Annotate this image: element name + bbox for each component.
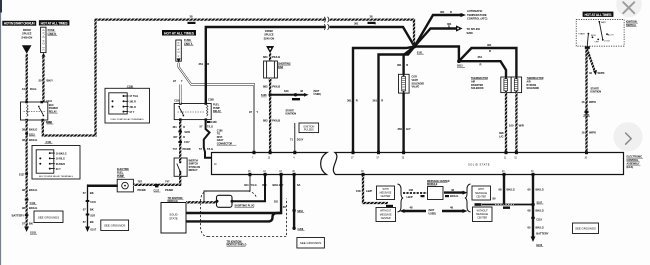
- band bottom pin numbers: [248, 171, 534, 173]
- svg-text:SOLENOID: SOLENOID: [471, 87, 484, 90]
- svg-text:461: 461: [172, 125, 177, 129]
- wire 48 arrow right top: [444, 191, 468, 195]
- wire pin20 to C208: [293, 176, 295, 228]
- svg-text:361 R: 361 R: [130, 106, 137, 109]
- svg-text:60: 60: [528, 187, 531, 191]
- svg-text:FROM: FROM: [23, 28, 31, 32]
- svg-text:398: 398: [499, 131, 504, 135]
- svg-text:PK/LB: PK/LB: [272, 84, 280, 88]
- wire 16 W/PK to band: [585, 49, 587, 152]
- svg-text:32: 32: [589, 71, 592, 75]
- svg-text:C186: C186: [211, 121, 217, 124]
- svg-text:L/G: L/G: [499, 135, 503, 139]
- label 108 LB/P: [356, 189, 372, 193]
- svg-text:359: 359: [262, 183, 267, 187]
- label 787 PK/BK: [138, 180, 146, 192]
- label 361 R byp: [487, 43, 492, 53]
- label TFI ignition module shield: [227, 240, 247, 246]
- svg-text:W/R: W/R: [519, 123, 524, 127]
- svg-text:CENTER: CENTER: [476, 195, 486, 198]
- label 38 C184 right: [368, 15, 376, 25]
- svg-text:USED): USED): [314, 93, 322, 96]
- connector S206: [178, 131, 190, 135]
- label 361 R riser: [199, 62, 210, 66]
- splice S101 junction: [413, 45, 424, 55]
- wire U loop to module: [186, 213, 281, 221]
- svg-text:HOT AT ALL TIMES: HOT AT ALL TIMES: [41, 21, 69, 25]
- svg-text:WITH: WITH: [382, 188, 388, 191]
- label 57 BK 2: [83, 208, 94, 212]
- svg-text:T/LG: T/LG: [207, 147, 213, 151]
- note NOT USED bottom: [429, 209, 437, 215]
- fuel pump relay K1: [174, 102, 211, 120]
- svg-text:R: R: [448, 25, 450, 29]
- wire pump ground 57 BK: [88, 184, 118, 187]
- thermactor air diverter solenoid L2: [501, 77, 511, 93]
- svg-text:98: 98: [22, 188, 25, 192]
- wire inertia to relay 747 PK/BK: [179, 120, 181, 158]
- connector C116: [154, 184, 161, 192]
- shield dashed boundary: [201, 191, 287, 237]
- svg-text:S206: S206: [184, 131, 190, 134]
- ground G103 right: [531, 237, 544, 248]
- svg-text:108: 108: [409, 188, 414, 192]
- svg-text:80: 80: [493, 196, 496, 200]
- wire junction to riser 353: [353, 47, 415, 152]
- svg-text:361: 361: [199, 62, 204, 66]
- svg-text:OFF: OFF: [595, 41, 600, 43]
- svg-text:97 Y: 97 Y: [130, 111, 135, 114]
- label 361 R riser1: [347, 99, 358, 103]
- svg-text:883: 883: [263, 119, 268, 123]
- band bottom pin pads: [248, 173, 534, 176]
- connector C108: [292, 98, 300, 100]
- label 16 R/LG: [22, 87, 36, 91]
- label EEC POWER RELAY: [49, 104, 58, 113]
- connector C118: [531, 217, 542, 222]
- close button: [616, 0, 642, 17]
- label HOT IN START OR RUN: [2, 21, 36, 26]
- wire junction to EGR: [404, 47, 415, 75]
- svg-text:BK/LG/Y: BK/LG/Y: [273, 183, 284, 187]
- svg-text:BK/LG: BK/LG: [29, 206, 37, 210]
- svg-text:48: 48: [300, 89, 303, 93]
- wire 883 PK/LB lower: [269, 78, 271, 152]
- ECA band right section: [333, 153, 623, 175]
- svg-text:360: 360: [398, 127, 403, 131]
- label 747 PK/BK upper: [173, 147, 191, 151]
- splice S127: [19, 172, 28, 176]
- label 60 BK/LG: [528, 187, 544, 191]
- wire to ATC arrow: [415, 13, 467, 47]
- svg-text:R: R: [406, 63, 408, 67]
- connector C117: [178, 141, 190, 144]
- svg-text:IGNITION: IGNITION: [286, 113, 297, 116]
- svg-text:O: O: [183, 135, 185, 139]
- svg-text:TEMPERATURE: TEMPERATURE: [467, 13, 487, 17]
- label EGR vent solenoid: [412, 76, 425, 89]
- svg-text:C188: C188: [208, 99, 214, 102]
- svg-text:R: R: [450, 10, 452, 14]
- wire S613 to bypass solenoid: [459, 48, 517, 77]
- svg-text:PK/BK: PK/BK: [183, 147, 191, 151]
- note AUTOMATIC TEMPERATURE CONTROL: [467, 9, 487, 21]
- svg-text:SEE GROUNDS: SEE GROUNDS: [38, 215, 59, 219]
- inertia switch S1: [174, 158, 187, 176]
- message center module title: [427, 180, 450, 186]
- svg-text:SOLID STATE: SOLID STATE: [468, 163, 490, 167]
- label 97 Y pin7: [249, 110, 258, 114]
- svg-text:HOT IN START OR RUN: HOT IN START OR RUN: [4, 22, 36, 26]
- svg-text:WITHOUT: WITHOUT: [380, 210, 392, 213]
- svg-text:57: 57: [22, 222, 25, 226]
- wire to splice S208: [415, 25, 463, 46]
- svg-text:LOCK: LOCK: [604, 40, 610, 42]
- svg-text:20: 20: [39, 79, 42, 83]
- label 57 T/LG 2: [199, 147, 213, 151]
- svg-text:361 R: 361 R: [130, 101, 137, 104]
- svg-text:PK/LB: PK/LB: [272, 55, 280, 59]
- wire junction to S613: [415, 47, 459, 62]
- svg-text:SEE GROUNDS: SEE GROUNDS: [575, 227, 596, 231]
- label SHORTING BAR: [278, 62, 291, 68]
- svg-text:MESSAGE: MESSAGE: [380, 213, 392, 216]
- svg-text:USED): USED): [429, 212, 437, 215]
- label 640 R: [284, 89, 303, 93]
- svg-text:O: O: [183, 125, 185, 129]
- label 361 R riser2: [373, 99, 384, 103]
- svg-text:BATT: BATT: [601, 21, 607, 24]
- wire 97 Y pair: [179, 63, 254, 152]
- without message center box R: [473, 207, 493, 222]
- svg-text:97 T/LG: 97 T/LG: [130, 95, 139, 98]
- svg-text:38: 38: [22, 127, 25, 131]
- wire 71 DG/Y: [294, 123, 296, 152]
- connector C113: [25, 199, 37, 206]
- svg-text:SPLICE: SPLICE: [264, 33, 274, 37]
- connector C115 pump: [86, 200, 97, 204]
- wire diverter to band (hatched): [505, 93, 507, 152]
- svg-text:747: 747: [165, 180, 170, 184]
- svg-text:60: 60: [528, 225, 531, 229]
- label 16 BK/LG: [22, 188, 37, 192]
- svg-text:RUN: RUN: [591, 35, 596, 37]
- svg-text:Y: Y: [256, 110, 258, 114]
- label 57 BK: [22, 222, 33, 226]
- svg-text:BK/LG: BK/LG: [29, 138, 37, 142]
- label 57 T/LG: [200, 124, 214, 128]
- svg-text:BK: BK: [90, 191, 94, 195]
- svg-text:IMPACT: IMPACT: [189, 169, 199, 172]
- label 20 BK/Y: [39, 79, 54, 83]
- connector triangle S240: [266, 46, 274, 53]
- label HOT AT ALL TIMES (right): [583, 12, 614, 17]
- detail box C188 fuel pump relay terminals: [105, 85, 150, 123]
- svg-text:PK/LB: PK/LB: [272, 119, 280, 123]
- svg-text:14 GA BR: 14 GA BR: [178, 42, 181, 59]
- svg-text:DG: DG: [274, 200, 278, 204]
- connector C186 below relay: [207, 121, 217, 124]
- svg-text:VALVE: VALVE: [412, 86, 420, 89]
- svg-text:361: 361: [440, 10, 445, 14]
- svg-text:57: 57: [83, 191, 86, 195]
- wire 48 arrow bottom left: [400, 209, 427, 213]
- splice S302: [292, 209, 304, 213]
- svg-text:FUSE: FUSE: [48, 28, 55, 32]
- svg-text:68: 68: [528, 209, 531, 213]
- wire 20 BK/Y (hatched): [42, 57, 44, 102]
- svg-text:C101: C101: [46, 100, 52, 103]
- label FUSE LINK D: [48, 28, 58, 36]
- svg-text:S208: S208: [467, 31, 474, 35]
- svg-text:EEC POWER RELAY TERMINALS: EEC POWER RELAY TERMINALS: [39, 175, 74, 178]
- connector triangle C: [22, 45, 32, 54]
- svg-text:SEE GROUNDS: SEE GROUNDS: [300, 241, 321, 245]
- detail box EEC power relay terminals: [32, 141, 80, 179]
- wire bypass to band (hatched): [515, 93, 517, 152]
- label BK/LG/Y 8A: [273, 183, 301, 187]
- svg-text:C118: C118: [536, 219, 542, 222]
- svg-text:BATTERY: BATTERY: [536, 232, 549, 236]
- wire 883 PK/LB upper: [269, 53, 271, 61]
- label 60 BK/LG 2: [528, 225, 544, 229]
- svg-text:R: R: [356, 99, 358, 103]
- svg-text:(ECA): (ECA): [627, 166, 634, 169]
- svg-text:Y/LG: Y/LG: [251, 183, 257, 187]
- label 361 R horiz: [354, 22, 376, 26]
- wire start feed arrow: [587, 49, 597, 75]
- TFI module solid state box U2: [161, 203, 186, 234]
- wire S613 to diverter solenoid: [459, 61, 506, 77]
- wire 38 BK/O loop (hatched): [43, 20, 414, 136]
- label 324 Y/LG: [244, 183, 257, 187]
- svg-text:AUTOMATIC: AUTOMATIC: [467, 9, 482, 13]
- ignition pulses box: [299, 123, 319, 133]
- splice S212: [41, 120, 53, 124]
- svg-text:57: 57: [200, 124, 203, 128]
- svg-text:108: 108: [356, 189, 361, 193]
- svg-text:HOT AT ALL TIMES: HOT AT ALL TIMES: [585, 13, 613, 17]
- svg-text:48: 48: [410, 206, 413, 210]
- svg-text:16: 16: [582, 100, 585, 104]
- svg-text:G/Y: G/Y: [406, 127, 411, 131]
- connector C? module right: [445, 195, 449, 197]
- label 71 DG/Y: [290, 138, 304, 142]
- svg-text:R: R: [207, 62, 209, 66]
- svg-text:38: 38: [22, 138, 25, 142]
- label thermactor bypass: [527, 77, 544, 90]
- thermactor air bypass solenoid L3: [511, 77, 521, 93]
- svg-text:TO SPLICE: TO SPLICE: [467, 27, 481, 31]
- svg-text:LINK A: LINK A: [184, 42, 193, 46]
- brace left pair: [398, 184, 404, 212]
- wire plug to pin16: [232, 176, 265, 201]
- svg-text:LINK D: LINK D: [48, 32, 57, 36]
- svg-text:STATE: STATE: [169, 216, 178, 220]
- svg-text:883: 883: [263, 84, 268, 88]
- ground G106: [85, 227, 97, 233]
- note NOT USED: [314, 90, 322, 96]
- svg-text:361: 361: [487, 43, 492, 47]
- svg-text:BK: BK: [29, 222, 33, 226]
- svg-text:ACCY: ACCY: [608, 33, 615, 36]
- EGR vent solenoid L1: [399, 74, 410, 93]
- ground G103 left: [24, 227, 37, 235]
- svg-text:97: 97: [173, 79, 176, 83]
- svg-text:BK/LG: BK/LG: [536, 187, 544, 191]
- label 361 R ATC: [440, 10, 452, 14]
- wire 361 R after break: [330, 27, 415, 47]
- wire 640 R stub arrow: [270, 93, 309, 97]
- svg-text:CENTER: CENTER: [381, 217, 391, 220]
- label inertia switch: [189, 160, 201, 173]
- shorting plug P1: [216, 195, 234, 207]
- connector C276: [583, 111, 590, 117]
- splice S108: [261, 93, 272, 97]
- message center module box U3: [428, 187, 444, 200]
- svg-text:BATTERY: BATTERY: [12, 214, 25, 218]
- svg-text:48: 48: [283, 205, 286, 209]
- svg-text:HOT AT ALL TIMES: HOT AT ALL TIMES: [164, 31, 195, 35]
- svg-text:361: 361: [347, 99, 352, 103]
- svg-text:20 Y: 20 Y: [56, 168, 61, 171]
- svg-text:CONTROL (ATC): CONTROL (ATC): [467, 17, 487, 21]
- svg-text:SPLICE: SPLICE: [22, 32, 32, 36]
- svg-text:WITH: WITH: [478, 188, 484, 191]
- label 360 G/Y: [398, 127, 411, 131]
- svg-text:FUSE: FUSE: [184, 38, 191, 42]
- wire pin60 down to ground: [532, 176, 534, 239]
- with message center box R: [472, 186, 491, 200]
- fuse link D: [41, 27, 46, 56]
- wire 108 LB/P dashed to module: [403, 192, 427, 194]
- label IGNITION SWITCH: [626, 20, 638, 26]
- note START IGNITION right: [591, 87, 602, 93]
- svg-text:71: 71: [290, 138, 293, 142]
- svg-text:20 GA BU/B: 20 GA BU/B: [43, 29, 46, 50]
- svg-text:361: 361: [354, 22, 359, 26]
- svg-text:57: 57: [83, 220, 86, 224]
- see grounds box 4: [573, 223, 599, 234]
- band top pin numbers: [214, 157, 588, 166]
- label FUEL PUMP RELAY: [213, 104, 222, 113]
- label 361 R S208: [447, 22, 452, 29]
- ignition switch SW1: [576, 20, 624, 47]
- svg-text:324: 324: [244, 183, 249, 187]
- connector C410 right: [475, 203, 482, 206]
- label 361 R egr: [397, 63, 408, 67]
- label 461 O: [172, 125, 185, 129]
- svg-text:8A: 8A: [297, 183, 300, 187]
- EGR connector dots: [403, 74, 405, 93]
- svg-text:S409-ON: S409-ON: [21, 35, 32, 39]
- svg-text:16 R/LG: 16 R/LG: [56, 158, 65, 161]
- label 38 BK/LG: [22, 127, 37, 131]
- with message center box L: [377, 186, 395, 200]
- label SHORTING PLUG: [235, 205, 255, 208]
- svg-text:PK/BK: PK/BK: [165, 188, 173, 192]
- svg-text:361: 361: [373, 99, 378, 103]
- see grounds box 1: [34, 211, 63, 223]
- label ELECTRONIC CONTROL ASSEMBLY: [627, 156, 644, 170]
- connector C? module left: [421, 195, 425, 197]
- label 883 PK/LB 1: [263, 55, 280, 59]
- EEC power relay U1: [21, 101, 48, 121]
- brace right pair: [465, 184, 471, 212]
- label 16 W/PK 2: [582, 131, 597, 135]
- note TO SPLICE S208: [467, 27, 481, 35]
- label 747 PK/BK: [165, 180, 173, 192]
- fuse link A: [176, 40, 182, 63]
- svg-text:PK/BK: PK/BK: [138, 188, 146, 192]
- svg-text:T/LG: T/LG: [207, 124, 213, 128]
- band top pin pads: [253, 151, 589, 154]
- electric fuel pump label: [117, 168, 129, 178]
- svg-text:MESSAGE: MESSAGE: [476, 213, 488, 216]
- svg-text:G107: G107: [90, 228, 97, 231]
- svg-text:S1R: S1R: [90, 214, 95, 217]
- wire 48 arrow bottom right: [442, 209, 468, 213]
- wire 108 LB/P from pin38: [363, 176, 388, 203]
- wire 361 R riser: [206, 27, 325, 104]
- svg-text:787: 787: [138, 180, 143, 184]
- svg-text:S240 ON: S240 ON: [264, 36, 275, 40]
- wire EGR to band 360: [402, 93, 404, 151]
- label 68 BK/LG 2: [528, 209, 544, 213]
- svg-text:57: 57: [199, 147, 202, 151]
- svg-text:R: R: [381, 99, 383, 103]
- label 20 BK/LG: [22, 206, 37, 210]
- svg-text:38: 38: [370, 15, 373, 19]
- splice S410: [503, 207, 510, 209]
- svg-text:467: 467: [173, 135, 178, 139]
- svg-text:MESSAGE: MESSAGE: [475, 192, 487, 195]
- svg-text:97: 97: [249, 110, 252, 114]
- svg-text:BK/LG: BK/LG: [29, 188, 37, 192]
- svg-text:MESSAGE: MESSAGE: [380, 192, 392, 195]
- label 100 W/R: [509, 123, 524, 127]
- svg-text:R: R: [489, 49, 491, 53]
- label TFI ignition module: [168, 197, 184, 203]
- note FROM SPLICE S240 ON: [264, 29, 275, 41]
- svg-text:W/PK: W/PK: [589, 100, 596, 104]
- svg-text:S127: S127: [19, 173, 25, 176]
- connector C410: [386, 205, 393, 207]
- connector ign sw bottom: [585, 46, 590, 49]
- svg-text:LB/P: LB/P: [366, 189, 372, 193]
- splice S213: [25, 132, 35, 136]
- svg-text:START: START: [578, 33, 586, 36]
- note FROM SPLICE S409-ON: [21, 28, 32, 40]
- svg-text:W/PK: W/PK: [589, 131, 596, 135]
- electric fuel pump M1: [117, 179, 133, 192]
- svg-text:57: 57: [83, 208, 86, 212]
- wire pin18 thick: [186, 176, 281, 213]
- svg-text:BK/LG: BK/LG: [450, 194, 458, 198]
- svg-text:BK/LG: BK/LG: [536, 209, 544, 213]
- svg-text:CENTER: CENTER: [381, 195, 391, 198]
- svg-text:68: 68: [499, 187, 502, 191]
- label HOT AT ALL TIMES: [39, 20, 70, 25]
- label 398 L/G: [499, 131, 504, 139]
- svg-text:BK: BK: [90, 220, 94, 224]
- wire 57 T/LG zigzag to band: [204, 120, 212, 158]
- note C186 TFI connector: [217, 129, 237, 145]
- svg-text:FROM: FROM: [265, 29, 273, 33]
- wire junction to riser 378: [379, 47, 415, 152]
- svg-text:SEE GROUNDS: SEE GROUNDS: [104, 224, 125, 228]
- without message center box L: [376, 208, 396, 222]
